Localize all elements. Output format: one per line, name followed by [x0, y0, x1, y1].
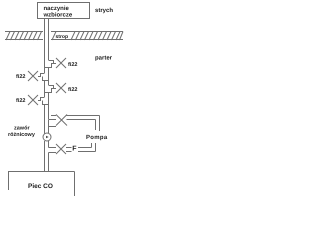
pipe riser right mid1 — [48, 68, 50, 86]
riser crossing R1 — [45, 67, 52, 69]
svg-text:naczynie: naczynie — [44, 5, 70, 12]
svg-text:wzbiorcze: wzbiorcze — [43, 12, 73, 19]
pipe riser attic right — [48, 19, 50, 32]
branch R2 jog top — [49, 86, 54, 89]
bypass supply corner from riser — [49, 119, 57, 121]
bypass supply line upper — [67, 115, 100, 117]
boiler box left — [8, 172, 10, 191]
valve X4 radiator left 2 — [28, 95, 38, 105]
branch L2 return jog — [43, 101, 50, 105]
svg-text:fi22: fi22 — [68, 62, 77, 68]
expansion vessel box — [38, 3, 90, 19]
svg-text:zawór: zawór — [14, 125, 30, 132]
valve X2 radiator left 1 — [28, 71, 38, 81]
slab hatch left — [6, 32, 56, 41]
pipe riser attic left — [44, 19, 46, 32]
branch R1 return jog — [45, 64, 52, 68]
bypass return line lower left — [66, 151, 71, 153]
branch R1 stub to valve — [51, 63, 56, 65]
bypass return line upper right — [78, 147, 92, 149]
pipe riser right upper — [48, 40, 50, 60]
differential valve circle — [43, 133, 51, 141]
svg-text:strych: strych — [95, 7, 113, 14]
boiler box top — [8, 171, 75, 173]
slab top edge right — [51, 31, 123, 33]
svg-text:różnicowy: różnicowy — [8, 131, 36, 138]
differential valve triangle — [46, 136, 49, 139]
pipe riser through slab right — [48, 31, 50, 40]
boiler box right — [74, 172, 76, 197]
pipe riser left mid1 — [44, 81, 46, 98]
svg-text:fi22: fi22 — [16, 74, 25, 80]
pump return vertical outer — [95, 143, 97, 152]
slab hatch right — [71, 32, 123, 41]
branch L1 jog top — [38, 74, 45, 77]
svg-text:F: F — [72, 146, 77, 153]
bypass supply line lower — [67, 119, 96, 121]
branch R2 return jog — [45, 89, 52, 93]
bypass right vertical inner upper — [95, 120, 97, 131]
branch L1 return jog — [43, 77, 50, 81]
svg-text:strop: strop — [56, 34, 69, 40]
slab top edge left — [5, 31, 43, 33]
pipe riser right mid2 — [48, 93, 50, 120]
svg-text:fi22: fi22 — [16, 98, 25, 104]
pipe riser left lower — [44, 141, 46, 171]
bypass return stub upper left — [49, 147, 57, 149]
bypass supply stub upper — [51, 115, 56, 117]
valve X5 bypass supply — [56, 115, 67, 126]
pipe riser right to diff valve — [48, 120, 50, 134]
svg-text:fi22: fi22 — [68, 87, 77, 93]
branch R1 jog top — [49, 61, 54, 64]
valve X6 bypass return — [56, 144, 66, 154]
pipe riser right circle to X4 — [48, 141, 50, 148]
pipe riser left mid2 — [44, 105, 46, 134]
svg-text:parter: parter — [95, 56, 113, 62]
pipe riser right lower — [48, 153, 50, 172]
svg-text:Pompa: Pompa — [86, 134, 108, 141]
svg-text:Piec CO: Piec CO — [28, 183, 53, 190]
branch R2 stub to valve — [51, 88, 56, 90]
branch L2 jog top — [38, 98, 45, 101]
bypass return line upper left — [66, 147, 71, 149]
bypass lower stub left of valve — [49, 126, 57, 128]
pump return vertical inner — [91, 143, 93, 148]
slab bottom edge left — [5, 39, 43, 41]
slab bottom edge right — [51, 39, 123, 41]
bypass return stub lower left — [49, 152, 57, 154]
bypass right vertical outer upper — [99, 116, 101, 132]
bypass return line lower right — [78, 151, 96, 153]
pipe riser left upper — [44, 40, 46, 73]
pipe riser through slab left — [44, 31, 46, 40]
valve X3 radiator right 2 — [56, 83, 66, 93]
valve X1 radiator right 1 — [56, 58, 66, 68]
